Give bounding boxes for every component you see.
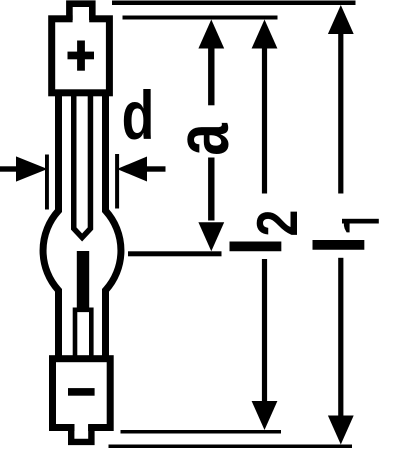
- lamp cap top (anode cap): [52, 19, 110, 93]
- d arrow right head: [117, 157, 147, 182]
- a line upper shaft: [208, 47, 214, 105]
- bottom contact nub white channel: [75, 415, 89, 439]
- plus symbol horizontal bar: [68, 52, 95, 60]
- d arrow left shaft: [0, 166, 17, 171]
- label l1 subscript 1 stem: [342, 219, 379, 224]
- svg-text:l: l: [302, 235, 381, 255]
- l1 line upper shaft: [338, 33, 343, 194]
- outer tube wall left with bulge: [43, 92, 58, 359]
- plus symbol vertical bar: [77, 41, 85, 71]
- a bottom reference line: [128, 251, 222, 256]
- electrode rod: [77, 251, 89, 311]
- d arrow left head: [16, 156, 48, 181]
- svg-text:2: 2: [246, 210, 310, 237]
- seal tube lower: [75, 310, 91, 359]
- a line lower shaft: [208, 158, 214, 221]
- l1 bottom reference line: [109, 445, 353, 449]
- svg-text:a: a: [161, 123, 245, 156]
- d dimension tick right: [115, 154, 119, 209]
- lamp cap bottom (cathode cap): [53, 359, 111, 428]
- l1 arrow down head: [328, 416, 354, 445]
- top contact nub white channel: [73, 7, 90, 27]
- d arrow right shaft: [146, 166, 166, 171]
- top contact nub: [69, 4, 92, 20]
- l2 bottom reference line: [121, 430, 282, 434]
- l2 line upper shaft: [262, 47, 267, 194]
- inner electrode tube with conical tip: [74, 92, 91, 238]
- reference line l1 top: [112, 1, 356, 6]
- minus symbol: [68, 388, 95, 396]
- a arrow up head: [198, 20, 224, 49]
- outer tube wall right with bulge: [106, 92, 121, 359]
- l2 arrow down head: [252, 401, 278, 430]
- reference line a / l2 top: [123, 16, 278, 20]
- svg-text:l: l: [218, 236, 297, 256]
- svg-text:d: d: [122, 78, 155, 155]
- label l1 subscript 1 flag: [344, 224, 350, 233]
- l1 arrow up head: [328, 5, 354, 34]
- l2 arrow up head: [252, 20, 278, 49]
- bottom contact nub: [71, 425, 91, 442]
- l2 line lower shaft: [262, 259, 267, 402]
- l1 line lower shaft: [338, 258, 343, 418]
- d dimension tick left: [45, 155, 49, 210]
- a arrow down head: [198, 222, 224, 251]
